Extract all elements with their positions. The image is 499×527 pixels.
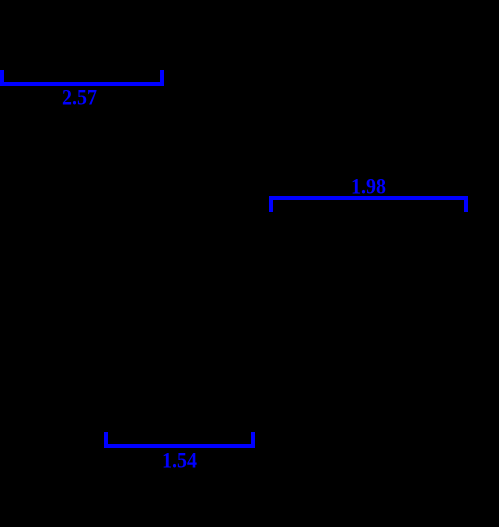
measurement bracket 2.57 (ticks up, top-left) xyxy=(0,70,164,86)
svg-text:1.54: 1.54 xyxy=(162,448,197,473)
measurement bracket 1.98 (ticks down, right) xyxy=(269,196,468,212)
measurement bracket 1.54 (ticks up, bottom) xyxy=(104,432,255,448)
value label 1.54 xyxy=(162,448,197,473)
svg-text:2.57: 2.57 xyxy=(62,85,97,110)
value label 2.57 xyxy=(62,85,97,110)
value label 1.98 xyxy=(351,174,386,199)
svg-text:1.98: 1.98 xyxy=(351,174,386,199)
